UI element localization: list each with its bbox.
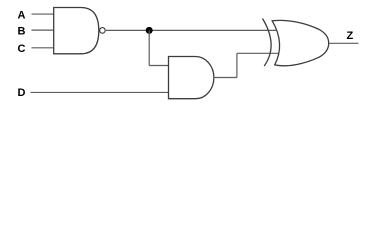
wire input C <box>32 47 55 49</box>
svg-text:Z: Z <box>347 30 354 42</box>
junction node dot <box>146 27 153 34</box>
svg-text:D: D <box>18 87 26 99</box>
wire and output riser <box>236 53 238 77</box>
wire input D <box>31 91 169 93</box>
xor gate U3 body <box>272 20 329 65</box>
svg-text:B: B <box>18 26 26 38</box>
wire nand output to xor top input <box>106 29 276 31</box>
wire riser to xor bottom input <box>237 52 279 54</box>
wire junction vertical drop <box>148 30 150 65</box>
xor gate U3 input arc <box>263 19 272 67</box>
nand gate U1 body <box>54 8 99 54</box>
wire xor output Z <box>329 42 359 44</box>
wire input A <box>32 13 55 15</box>
svg-text:A: A <box>18 10 26 22</box>
wire input B <box>32 29 55 31</box>
svg-text:C: C <box>18 43 26 55</box>
and gate U2 body <box>169 57 214 99</box>
nand gate U1 output bubble <box>100 28 106 34</box>
wire and output horizontal <box>214 77 237 79</box>
wire junction to and gate top input <box>149 65 168 67</box>
